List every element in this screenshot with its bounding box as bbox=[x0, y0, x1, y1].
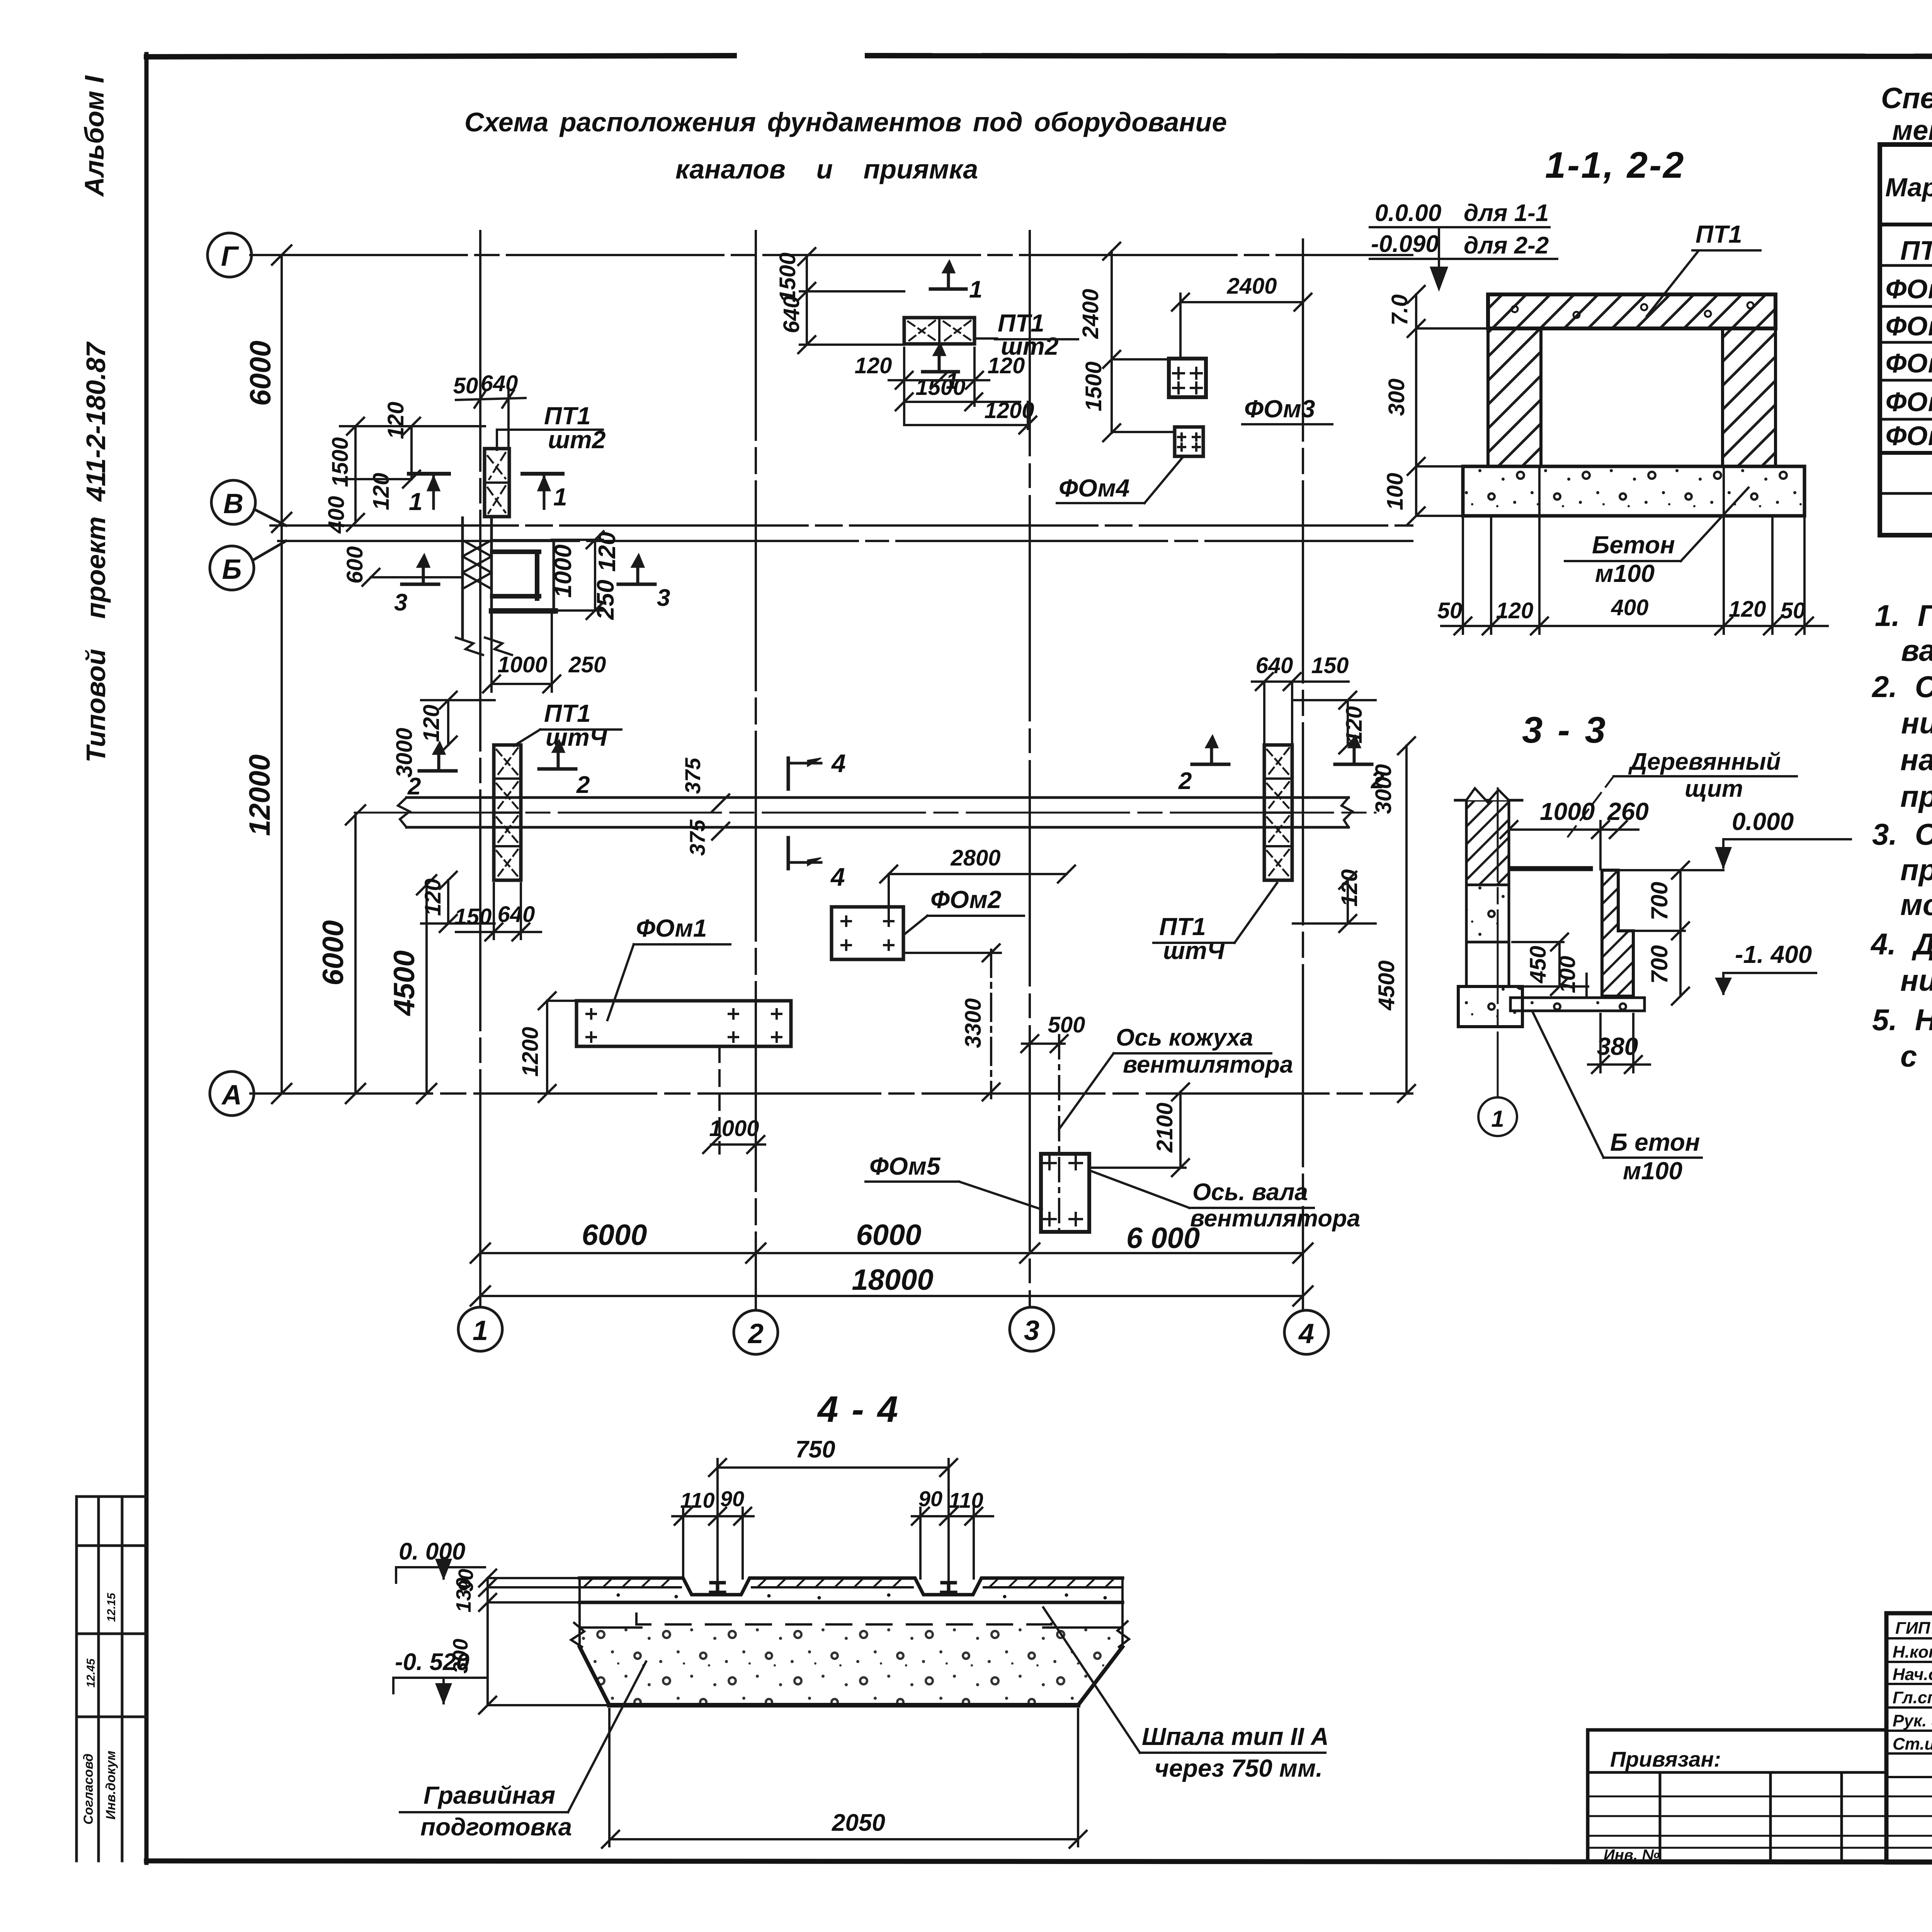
svg-text:18000: 18000 bbox=[852, 1264, 933, 1296]
svg-text:1000: 1000 bbox=[1540, 798, 1595, 825]
svg-text:м100: м100 bbox=[1623, 1157, 1682, 1185]
svg-text:3: 3 bbox=[394, 589, 407, 616]
svg-text:Нач.отд.: Нач.отд. bbox=[1893, 1665, 1932, 1684]
channel left break bbox=[398, 798, 410, 827]
svg-text:А: А bbox=[221, 1080, 242, 1111]
plate ПТ1 шт2 near column 2 top bbox=[904, 318, 975, 344]
pit walls outline bbox=[492, 541, 555, 612]
svg-text:Привязан:: Привязан: bbox=[1610, 1747, 1721, 1771]
svg-text:7.0: 7.0 bbox=[1387, 294, 1412, 326]
svg-text:2100: 2100 bbox=[1152, 1102, 1177, 1153]
svg-text:4500: 4500 bbox=[1374, 960, 1399, 1010]
svg-text:300: 300 bbox=[449, 1639, 472, 1673]
svg-text:3 - 3: 3 - 3 bbox=[1522, 709, 1608, 751]
svg-text:120: 120 bbox=[1496, 598, 1534, 623]
svg-text:м100: м100 bbox=[1595, 560, 1655, 587]
svg-text:640: 640 bbox=[779, 296, 804, 333]
svg-text:0.000: 0.000 bbox=[1732, 808, 1794, 835]
svg-text:ФОм3: ФОм3 bbox=[1886, 348, 1932, 378]
svg-text:4: 4 bbox=[830, 862, 845, 891]
svg-text:3300: 3300 bbox=[961, 998, 986, 1048]
svg-text:3. Обратную засыпку пазу: 3. Обратную засыпку пазух каналов и прия… bbox=[1872, 817, 1932, 851]
foundation ФОм1 bbox=[577, 1001, 791, 1046]
svg-text:150: 150 bbox=[454, 904, 492, 929]
axis А line bbox=[250, 1092, 1412, 1095]
svg-text:1: 1 bbox=[1491, 1106, 1504, 1132]
svg-text:1000: 1000 bbox=[497, 652, 547, 677]
svg-text:640: 640 bbox=[1256, 653, 1293, 678]
foundation ФОм5 bbox=[1041, 1154, 1089, 1232]
svg-text:2400: 2400 bbox=[1078, 289, 1103, 339]
svg-text:на растворе М50 и со: на растворе М50 и со стороны грунта bbox=[1900, 743, 1932, 777]
svg-text:с листом кж - 9.: с листом кж - 9. bbox=[1900, 1039, 1932, 1073]
svg-text:для 1-1: для 1-1 bbox=[1464, 200, 1549, 226]
top hatched screed layer with rail notches bbox=[580, 1578, 1122, 1595]
svg-text:750: 750 bbox=[795, 1436, 835, 1463]
svg-text:100: 100 bbox=[1383, 473, 1408, 510]
svg-text:ФОм2: ФОм2 bbox=[930, 886, 1001, 913]
svg-text:ГИП: ГИП bbox=[1895, 1619, 1931, 1638]
section mark 1 above/below top plate bbox=[923, 260, 966, 372]
svg-text:вентилятора: вентилятора bbox=[1190, 1205, 1360, 1232]
foundation ФОм2 bbox=[832, 907, 903, 959]
svg-text:производить послойным трамб: производить послойным трамбованием после bbox=[1900, 853, 1932, 887]
svg-text:2400: 2400 bbox=[1226, 274, 1277, 299]
svg-text:Бетон: Бетон bbox=[1592, 531, 1675, 559]
svg-text:Ось кожуха: Ось кожуха bbox=[1116, 1024, 1253, 1051]
foundation ФОм4 square bbox=[1175, 427, 1203, 456]
svg-text:6000: 6000 bbox=[582, 1219, 647, 1252]
floor slab section 4-4 bbox=[580, 1578, 1122, 1624]
svg-text:ФОм5: ФОм5 bbox=[869, 1152, 941, 1180]
svg-text:монтажа плит перекрытия.: монтажа плит перекрытия. bbox=[1900, 888, 1932, 922]
channel bottom wall line bbox=[406, 826, 1349, 829]
foundation ФОм3 square bbox=[1169, 359, 1206, 397]
svg-text:каналов и приямка: каналов и приямка bbox=[675, 154, 978, 184]
svg-text:штЧ: штЧ bbox=[1163, 937, 1225, 964]
border frame top bbox=[146, 56, 734, 57]
section mark 3 (right) bbox=[618, 554, 655, 584]
svg-text:1. Грунт в основании фундам: 1. Грунт в основании фундаментов под обо… bbox=[1875, 599, 1932, 633]
svg-text:4500: 4500 bbox=[388, 950, 421, 1016]
svg-text:130: 130 bbox=[452, 1578, 475, 1612]
section mark 3 (left) bbox=[402, 554, 439, 584]
axis Г line bbox=[250, 254, 1412, 256]
svg-text:2. Стенки подпольных канал: 2. Стенки подпольных каналов и приятка в… bbox=[1871, 670, 1932, 704]
svg-text:120: 120 bbox=[1729, 597, 1766, 622]
svg-text:1000: 1000 bbox=[550, 544, 577, 598]
svg-text:Ось. вала: Ось. вала bbox=[1192, 1179, 1308, 1206]
svg-text:1: 1 bbox=[409, 488, 423, 515]
svg-text:Типовой проект 411-2-180.8: Типовой проект 411-2-180.87 bbox=[81, 341, 111, 762]
axis line + circle 1 (section 3-3) bbox=[1497, 788, 1499, 1097]
column bubble 4 bbox=[1284, 1310, 1328, 1354]
svg-text:щит: щит bbox=[1685, 776, 1743, 802]
Привязан block bbox=[1588, 1730, 1886, 1862]
svg-text:-0.090: -0.090 bbox=[1371, 231, 1439, 257]
axis bubble А bbox=[210, 1071, 254, 1116]
axis bubble Б bbox=[210, 541, 286, 590]
svg-text:450: 450 bbox=[1526, 946, 1551, 984]
svg-text:120: 120 bbox=[855, 353, 892, 378]
slab ПТ1 hatched bbox=[1488, 294, 1776, 328]
column line 3 bbox=[1029, 231, 1031, 1307]
svg-text:3000: 3000 bbox=[1371, 764, 1396, 814]
svg-text:110: 110 bbox=[680, 1488, 714, 1512]
svg-text:Альбом I: Альбом I bbox=[79, 75, 109, 197]
svg-text:1000: 1000 bbox=[709, 1116, 759, 1141]
border frame bottom bbox=[146, 1861, 1932, 1862]
svg-text:380: 380 bbox=[1597, 1032, 1638, 1060]
svg-text:6000: 6000 bbox=[244, 340, 277, 406]
channel centerline bbox=[355, 812, 1376, 814]
svg-text:600: 600 bbox=[342, 546, 367, 584]
svg-text:12000: 12000 bbox=[243, 754, 276, 836]
svg-text:50: 50 bbox=[1781, 598, 1806, 623]
svg-text:Деревянный: Деревянный bbox=[1628, 748, 1781, 775]
svg-text:50: 50 bbox=[1437, 598, 1463, 623]
svg-text:4: 4 bbox=[1298, 1318, 1314, 1349]
column line 2 bbox=[755, 231, 757, 1310]
svg-text:2: 2 bbox=[1178, 768, 1192, 794]
spec table grid bbox=[1880, 145, 1932, 535]
svg-text:В: В bbox=[223, 488, 243, 519]
svg-text:ФОм1: ФОм1 bbox=[1886, 274, 1932, 304]
svg-text:500: 500 bbox=[1048, 1012, 1085, 1037]
svg-text:12.45: 12.45 bbox=[85, 1658, 97, 1687]
svg-text:Схема расположения фундаментов: Схема расположения фундаментов под обору… bbox=[464, 107, 1227, 137]
section marks 2 around left plate bbox=[419, 740, 576, 771]
svg-text:Гл.спец.: Гл.спец. bbox=[1893, 1688, 1932, 1707]
svg-text:Согласовд: Согласовд bbox=[81, 1753, 96, 1825]
left wall of pit (brick above) bbox=[1466, 788, 1509, 885]
svg-text:4. Деревянный щит покрыти: 4. Деревянный щит покрытия приямка выпол… bbox=[1870, 927, 1932, 961]
left brick wall bbox=[1488, 328, 1541, 466]
right brick wall bbox=[1723, 328, 1776, 466]
svg-text:вание и приямка тщательно: вание и приямка тщательно уплотнить. bbox=[1901, 633, 1932, 667]
svg-text:6 000: 6 000 bbox=[1126, 1222, 1200, 1255]
svg-text:3000: 3000 bbox=[392, 728, 417, 777]
svg-text:12.15: 12.15 bbox=[105, 1592, 118, 1622]
svg-text:через 750 мм.: через 750 мм. bbox=[1155, 1754, 1323, 1782]
gravel pad trapezoid bbox=[571, 1578, 1129, 1705]
svg-text:2: 2 bbox=[747, 1318, 764, 1349]
svg-text:300: 300 bbox=[1384, 379, 1409, 416]
svg-text:4: 4 bbox=[831, 749, 846, 777]
title block grid bbox=[1886, 1613, 1932, 1862]
sleeper hidden dashed line bbox=[636, 1614, 1051, 1624]
svg-text:Г: Г bbox=[221, 241, 239, 272]
inner left chain 6000 bbox=[354, 815, 357, 1094]
svg-text:2800: 2800 bbox=[950, 845, 1000, 871]
svg-text:1: 1 bbox=[969, 276, 982, 303]
svg-text:Марка: Марка bbox=[1885, 173, 1932, 202]
svg-text:нить по месту.: нить по месту. bbox=[1900, 963, 1932, 997]
right stepped wall hatched bbox=[1602, 870, 1633, 996]
svg-text:-1. 400: -1. 400 bbox=[1735, 940, 1812, 968]
svg-text:ментов под оборудование, канал: ментов под оборудование, каналов и приям… bbox=[1892, 115, 1932, 146]
svg-text:ФОм4: ФОм4 bbox=[1886, 387, 1932, 417]
svg-text:90: 90 bbox=[720, 1486, 744, 1511]
column line 1 bbox=[479, 231, 481, 1307]
svg-text:0.0.00: 0.0.00 bbox=[1375, 200, 1441, 226]
svg-text:Ст.инж: Ст.инж bbox=[1893, 1735, 1932, 1753]
pit bottom slab bbox=[1510, 998, 1645, 1011]
svg-text:375: 375 bbox=[680, 757, 705, 794]
column bubble 1 bbox=[458, 1307, 502, 1351]
plate ПТ1 шт2 near axis Г / column 1 area bbox=[485, 449, 509, 517]
column bubble 2 bbox=[734, 1310, 778, 1354]
svg-text:1: 1 bbox=[553, 483, 567, 511]
svg-text:1200: 1200 bbox=[518, 1027, 543, 1077]
plate ПТ1 шт4 at column 1 bbox=[494, 745, 521, 880]
svg-text:Б: Б bbox=[222, 554, 242, 585]
left chain 6000/12000 bbox=[281, 255, 283, 1094]
svg-text:120: 120 bbox=[419, 705, 444, 742]
section marks 4 on channel bbox=[788, 758, 821, 869]
svg-text:1500: 1500 bbox=[1081, 361, 1106, 411]
svg-text:2: 2 bbox=[576, 772, 590, 798]
svg-text:Б етон: Б етон bbox=[1610, 1128, 1700, 1156]
bottom chain 6000x3 bbox=[480, 1252, 1303, 1254]
svg-text:120: 120 bbox=[420, 879, 446, 916]
svg-text:4 - 4: 4 - 4 bbox=[817, 1389, 900, 1430]
svg-text:Шпала тип II А: Шпала тип II А bbox=[1142, 1723, 1329, 1750]
svg-text:150: 150 bbox=[1311, 653, 1349, 678]
svg-text:подготовка: подготовка bbox=[420, 1813, 572, 1841]
svg-text:6000: 6000 bbox=[856, 1219, 921, 1252]
axis bubble Г bbox=[207, 233, 252, 277]
pit wall left hatched bar bbox=[456, 518, 512, 655]
svg-text:нить из хорошо обожженног: нить из хорошо обожженного кирпича М100 bbox=[1901, 706, 1932, 740]
svg-text:6000: 6000 bbox=[317, 920, 350, 985]
section marks 2 around right plate bbox=[1192, 735, 1372, 764]
svg-text:ФОм3: ФОм3 bbox=[1244, 395, 1315, 423]
svg-text:ФОм1: ФОм1 bbox=[636, 914, 707, 942]
svg-text:110: 110 bbox=[949, 1488, 983, 1512]
svg-text:90: 90 bbox=[918, 1486, 942, 1511]
svg-text:Спецификация элементов к сх: Спецификация элементов к схеме расположе… bbox=[1881, 82, 1932, 115]
svg-text:ФОм2: ФОм2 bbox=[1886, 311, 1932, 341]
svg-text:промазать горячим битумом: промазать горячим битумом за 2раза. bbox=[1900, 779, 1932, 813]
svg-text:3: 3 bbox=[1024, 1315, 1039, 1346]
svg-text:400: 400 bbox=[324, 496, 349, 534]
plate ПТ1 шт4 at column 4 bbox=[1264, 745, 1292, 880]
concrete base strip bbox=[1463, 466, 1804, 516]
svg-text:700: 700 bbox=[1646, 945, 1672, 984]
column line 4 bbox=[1302, 240, 1304, 1310]
wooden cover (щит) thick line bbox=[1512, 866, 1590, 871]
axis bubble В bbox=[211, 480, 286, 526]
left wall ground line bbox=[1455, 799, 1522, 802]
axis В line bbox=[270, 524, 1412, 527]
svg-text:ФОм4: ФОм4 bbox=[1059, 474, 1129, 502]
channel top wall line bbox=[406, 796, 1349, 799]
svg-text:вентилятора: вентилятора bbox=[1123, 1051, 1293, 1078]
svg-text:250: 250 bbox=[592, 580, 619, 620]
svg-text:5. Настоящий лист рассматр: 5. Настоящий лист рассматривать совместн… bbox=[1872, 1003, 1932, 1037]
svg-text:для 2-2: для 2-2 bbox=[1464, 232, 1549, 259]
section mark 1 (left pair) bbox=[409, 474, 563, 509]
svg-text:1-1, 2-2: 1-1, 2-2 bbox=[1545, 145, 1685, 186]
channel right break bbox=[1342, 798, 1352, 827]
svg-text:250: 250 bbox=[568, 652, 606, 677]
svg-text:Рук. гр.: Рук. гр. bbox=[1893, 1711, 1932, 1730]
signature rows bbox=[1886, 1637, 1932, 1639]
column bubble 3 bbox=[1010, 1307, 1054, 1351]
svg-text:3: 3 bbox=[657, 585, 670, 611]
rails bbox=[711, 1583, 724, 1592]
svg-text:120: 120 bbox=[988, 353, 1025, 378]
svg-text:0. 000: 0. 000 bbox=[399, 1538, 465, 1565]
svg-text:Инв.докум: Инв.докум bbox=[104, 1751, 118, 1820]
svg-text:375: 375 bbox=[685, 819, 709, 855]
border frame left bbox=[145, 54, 149, 1863]
svg-text:700: 700 bbox=[1646, 882, 1672, 920]
svg-text:1: 1 bbox=[473, 1315, 488, 1346]
svg-text:Инв. №: Инв. № bbox=[1604, 1847, 1660, 1864]
svg-text:2050: 2050 bbox=[832, 1810, 885, 1836]
svg-text:Н.контр.: Н.контр. bbox=[1893, 1643, 1932, 1662]
svg-text:50: 50 bbox=[453, 373, 478, 398]
left wall middle concrete block bbox=[1466, 885, 1509, 942]
inner left chain 4500 bbox=[425, 885, 428, 1094]
svg-text:1500: 1500 bbox=[775, 252, 800, 302]
axis Б line bbox=[278, 540, 1412, 542]
bottom chain 18000 bbox=[480, 1295, 1303, 1297]
left bottom stamp table bbox=[77, 1497, 146, 1861]
svg-text:ПТ1: ПТ1 bbox=[1900, 235, 1932, 265]
svg-text:ПТ1: ПТ1 bbox=[1696, 220, 1742, 248]
left wall lower block bbox=[1466, 942, 1509, 986]
concrete underlayer bbox=[580, 1601, 1122, 1604]
signature table texts bbox=[1893, 1618, 1932, 1753]
svg-text:Гравийная: Гравийная bbox=[423, 1781, 555, 1809]
svg-text:400: 400 bbox=[1611, 595, 1649, 620]
left wall footing bbox=[1458, 986, 1522, 1027]
svg-text:ФОм5: ФОм5 bbox=[1886, 421, 1932, 451]
